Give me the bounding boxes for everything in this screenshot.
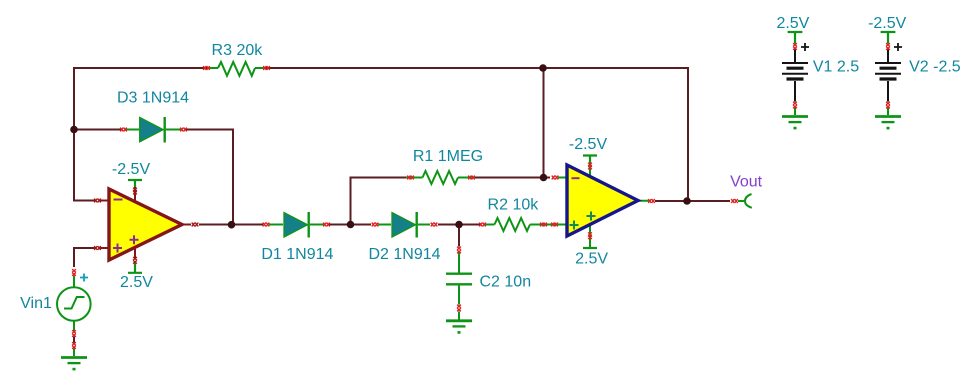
svg-text:V2 -2.5: V2 -2.5 <box>909 59 961 76</box>
pin marks R2 <box>479 223 486 227</box>
power label top T-bar <box>583 156 597 164</box>
input pin leads <box>558 178 649 201</box>
node E: junction top rail <box>539 64 547 72</box>
svg-text:D2 1N914: D2 1N914 <box>368 246 440 263</box>
pin marks op2 output <box>648 199 655 203</box>
wire vertical from top rail to op2 inverting node <box>543 68 545 178</box>
svg-text:2.5V: 2.5V <box>575 250 608 267</box>
power label tab <box>881 32 896 44</box>
pin marks V2 <box>886 43 890 50</box>
pin marks Vout terminal <box>731 199 738 203</box>
svg-text:R2 10k: R2 10k <box>488 196 540 213</box>
op-amp U2 (blue) <box>558 156 649 249</box>
svg-text:Vin1: Vin1 <box>20 295 52 312</box>
diode D1 <box>269 212 324 238</box>
pin marks op1 output <box>192 223 199 227</box>
wire op1 noninverting input from Vin <box>74 248 95 267</box>
pin marks R1 <box>407 176 414 180</box>
input pin leads <box>100 201 191 249</box>
power pin top <box>589 163 591 177</box>
pin marks D1 <box>263 223 270 227</box>
power pin top <box>134 187 136 202</box>
pin marks D2 <box>372 223 379 227</box>
wire D3 branch right down to op1 output node <box>186 130 233 225</box>
plus marker input <box>570 221 579 230</box>
power label bottom T-bar <box>128 263 142 273</box>
wire op1 output to D1 <box>199 224 263 226</box>
svg-text:D1 1N914: D1 1N914 <box>261 246 333 263</box>
wire R1 branch up and right <box>351 178 407 225</box>
power label top T-bar <box>128 180 142 187</box>
wire top feedback rail left <box>74 68 209 201</box>
svg-text:-2.5V: -2.5V <box>868 15 907 32</box>
pin marks op1 power <box>133 188 137 195</box>
svg-text:R1 1MEG: R1 1MEG <box>413 148 483 165</box>
capacitor C2 <box>446 252 472 320</box>
power label bottom T-bar <box>583 247 597 249</box>
ground under V1 <box>782 117 808 130</box>
pin marks D3 <box>120 128 127 132</box>
minus marker <box>114 199 123 201</box>
power label tab <box>788 32 803 44</box>
triangle body <box>109 189 182 260</box>
wire stub op2 noninverting <box>547 224 553 226</box>
pin marks op2 noninverting <box>551 223 558 227</box>
wire C2 stub <box>458 225 460 247</box>
plus marker power <box>587 212 596 221</box>
wire op2 output to Vout <box>655 200 730 202</box>
battery V2 <box>875 32 902 115</box>
ground under V2 <box>875 117 901 130</box>
pin marks V1 <box>793 43 797 50</box>
diode D3 <box>126 117 181 143</box>
wire D1 to D2 <box>329 224 371 226</box>
plus marker input <box>113 244 122 253</box>
resistor R2 <box>484 218 567 231</box>
output terminal Vout <box>738 194 752 208</box>
plus polarity mark <box>801 43 809 51</box>
svg-text:2.5V: 2.5V <box>120 274 153 291</box>
power pin bottom <box>589 225 591 248</box>
svg-text:Vout: Vout <box>730 173 763 190</box>
plus marker power <box>130 235 139 244</box>
pin marks op2 inverting <box>552 176 559 180</box>
node G: junction output <box>683 197 691 205</box>
diode D2 <box>378 212 430 238</box>
wire top feedback rail right + right vertical down to output <box>265 68 688 201</box>
svg-text:R3 20k: R3 20k <box>212 42 264 59</box>
minus marker <box>572 177 580 179</box>
triangle body <box>567 165 638 236</box>
source Vin1 <box>57 274 91 357</box>
wire D3 branch left <box>74 129 122 131</box>
pin marks op1 inputs <box>94 199 101 203</box>
node B: junction op1 output <box>228 221 236 229</box>
node D: junction D2/R2/C2 <box>455 221 463 229</box>
wire Vin to ground <box>73 337 75 344</box>
pin marks R3 <box>203 66 210 70</box>
pin marks op2 power <box>588 163 592 170</box>
wire D2 to R2 <box>438 224 481 226</box>
pin marks Vin1 <box>72 269 76 276</box>
node A: junction op1 inverting / D3 <box>70 126 78 134</box>
svg-text:-2.5V: -2.5V <box>569 136 608 153</box>
svg-text:D3 1N914: D3 1N914 <box>117 89 189 106</box>
svg-text:-2.5V: -2.5V <box>112 161 151 178</box>
pin marks C2 <box>457 247 461 254</box>
resistor R3 <box>209 62 266 76</box>
svg-text:V1 2.5: V1 2.5 <box>813 59 859 76</box>
resistor R1 <box>406 171 475 184</box>
ground under Vin1 <box>61 358 87 371</box>
ground under C2 <box>446 321 472 334</box>
svg-text:C2 10n: C2 10n <box>480 273 532 290</box>
plus polarity mark <box>80 274 88 282</box>
svg-text:2.5V: 2.5V <box>776 15 809 32</box>
wire R1 right to op2 inverting node <box>475 177 550 179</box>
battery V1 <box>782 32 809 115</box>
node C: junction D1/D2/R1 <box>347 221 355 229</box>
plus polarity mark <box>894 43 902 51</box>
node F: junction op2 inverting <box>540 174 548 182</box>
op-amp U1 (selected, red) <box>100 180 191 273</box>
power pin bottom <box>134 247 136 258</box>
